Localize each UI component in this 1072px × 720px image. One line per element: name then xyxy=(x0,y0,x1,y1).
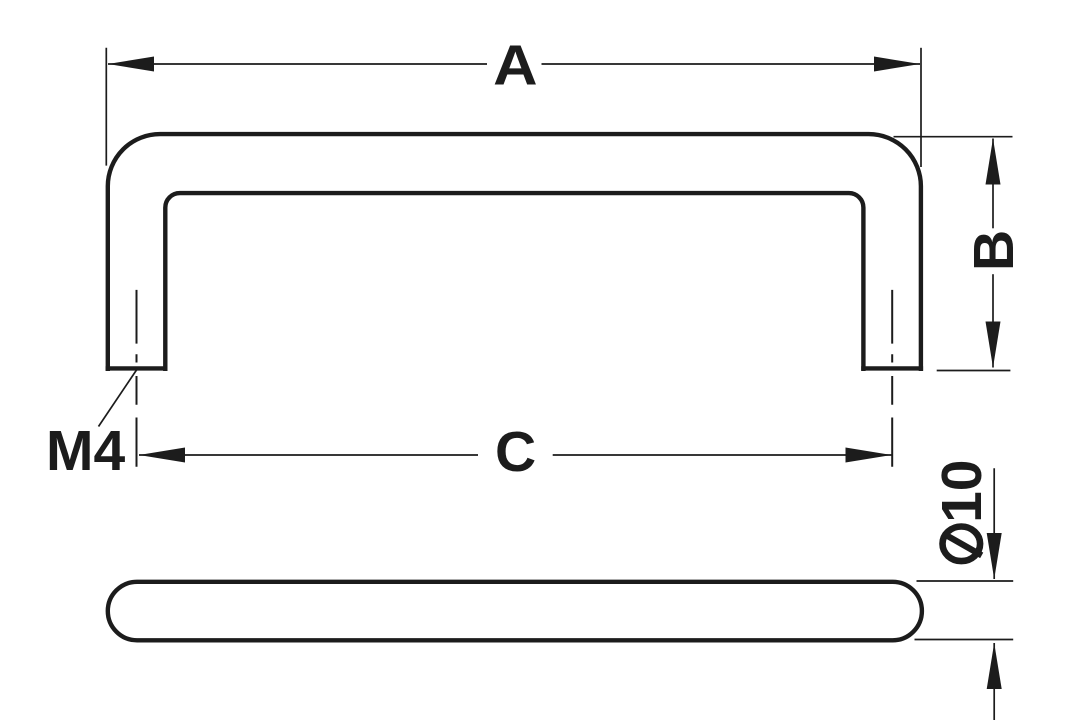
dimension B extension line bottom xyxy=(937,370,1011,372)
left leg center line (dash-dot) xyxy=(136,290,138,467)
svg-text:B: B xyxy=(962,230,1026,271)
diameter extension line bottom xyxy=(915,639,1014,641)
right leg center line (dash-dot) xyxy=(891,290,893,467)
svg-text:10: 10 xyxy=(930,459,994,522)
diameter arrow up xyxy=(987,643,1002,689)
dimension B arrow up xyxy=(986,139,1001,185)
dimension C arrow left xyxy=(139,448,185,463)
dimension A extension line right xyxy=(920,48,922,167)
svg-text:A: A xyxy=(493,33,537,97)
diameter dimension line lower xyxy=(993,643,995,720)
dimension A line left segment xyxy=(108,63,487,65)
diameter dimension line upper xyxy=(993,468,995,579)
dimension B line upper segment xyxy=(992,139,994,229)
dimension A extension line left xyxy=(105,48,107,166)
svg-text:M4: M4 xyxy=(46,419,125,483)
dimension B arrow down xyxy=(986,322,1001,368)
handle inner outline (front view) xyxy=(165,193,863,371)
label A xyxy=(493,33,537,97)
dimension C arrow right xyxy=(846,448,892,463)
dimension C line left segment xyxy=(139,454,478,456)
dimension A line right segment xyxy=(542,63,921,65)
handle bar side view (stadium) xyxy=(108,582,922,641)
diameter symbol slash xyxy=(943,533,982,555)
dimension C line right segment xyxy=(553,454,892,456)
handle outer outline (front view) xyxy=(108,134,921,371)
left leg bottom edge xyxy=(106,366,168,370)
dimension A arrow right xyxy=(874,57,920,72)
M4 leader line xyxy=(99,370,137,427)
diameter symbol circle xyxy=(943,527,981,562)
svg-text:C: C xyxy=(495,420,536,484)
dimension B line lower segment xyxy=(992,274,994,367)
diameter arrow down xyxy=(987,533,1002,579)
dimension A arrow left xyxy=(108,57,154,72)
diameter extension line top xyxy=(917,580,1014,582)
right leg bottom edge xyxy=(861,366,923,370)
dimension B extension line top xyxy=(894,136,1013,138)
